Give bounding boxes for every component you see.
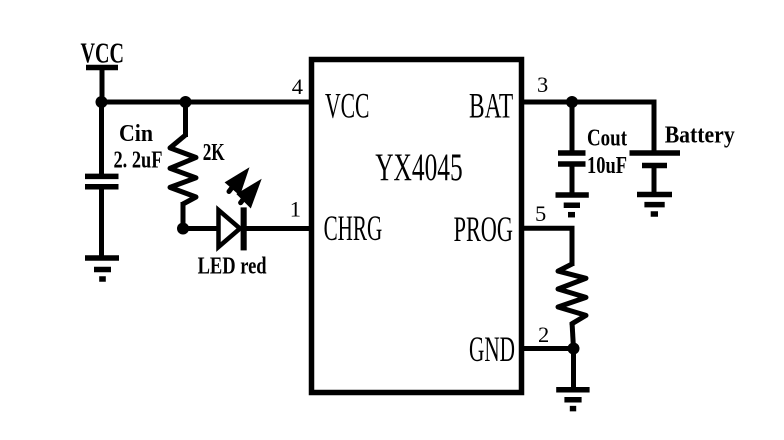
capacitor Cout xyxy=(558,153,586,164)
wire node A to VCC pin 4 xyxy=(102,100,314,105)
wire PROG pin 5 to resistor R2 xyxy=(520,228,572,266)
svg-text:VCC: VCC xyxy=(325,86,370,126)
svg-text:10uF: 10uF xyxy=(587,153,627,179)
LED D1 emission arrow 2 xyxy=(236,179,261,209)
IC U1 YX4045 body xyxy=(312,60,522,393)
ground (below Cout) xyxy=(556,195,589,215)
resistor R2 zigzag xyxy=(558,264,586,324)
svg-text:BAT: BAT xyxy=(469,86,513,126)
battery BT1 plates xyxy=(630,153,681,166)
pin name BAT xyxy=(469,86,513,126)
svg-text:4: 4 xyxy=(292,74,303,99)
wire resistor R2 to node E xyxy=(572,322,574,349)
label Cin xyxy=(119,121,153,147)
pin name GND xyxy=(469,329,515,369)
pin number 5 xyxy=(535,201,546,226)
wire BAT pin 3 to node D xyxy=(520,100,654,105)
svg-text:Battery: Battery xyxy=(665,122,735,148)
pin number 4 xyxy=(292,74,303,99)
resistor R1 2K zigzag xyxy=(170,135,196,204)
wire resistor R1 to node C xyxy=(181,202,186,229)
pin number 3 xyxy=(537,72,548,97)
svg-text:2. 2uF: 2. 2uF xyxy=(114,148,163,174)
ground (below node E) xyxy=(556,390,589,409)
svg-text:2: 2 xyxy=(538,322,549,347)
label Cout xyxy=(587,126,627,152)
node E junction dot xyxy=(568,343,580,355)
value 2K xyxy=(203,140,225,166)
capacitor Cin xyxy=(85,176,119,186)
power symbol VCC xyxy=(81,39,125,70)
wire battery BT1 to ground xyxy=(652,167,657,192)
value 10uF xyxy=(587,153,627,179)
wire node D down to capacitor Cout xyxy=(570,102,575,151)
pin name VCC xyxy=(325,86,370,126)
value 2.2uF xyxy=(114,148,163,174)
wire node A to capacitor Cin xyxy=(99,100,104,174)
wire node B to resistor R1 xyxy=(183,100,188,137)
svg-text:CHRG: CHRG xyxy=(324,208,383,248)
pin name PROG xyxy=(454,209,513,249)
wire LED D1 cathode to CHRG pin 1 xyxy=(245,226,313,231)
wire VCC power to node A xyxy=(100,68,105,103)
wire Cout to ground xyxy=(570,166,575,193)
ground (below Cin) xyxy=(85,258,119,279)
svg-text:1: 1 xyxy=(290,197,301,222)
pin number 1 xyxy=(290,197,301,222)
LED D1 emission arrow 1 xyxy=(225,167,250,196)
label LED red xyxy=(198,254,267,280)
IC part number YX4045 xyxy=(375,146,463,189)
LED D1 triangle xyxy=(219,210,241,247)
svg-text:Cout: Cout xyxy=(587,126,627,152)
pin name CHRG xyxy=(324,208,383,248)
ground (below battery) xyxy=(637,195,672,215)
svg-text:3: 3 xyxy=(537,72,548,97)
svg-text:5: 5 xyxy=(535,201,546,226)
svg-text:GND: GND xyxy=(469,329,515,369)
node B junction dot (resistor tap) xyxy=(180,96,192,108)
wire Cin to ground xyxy=(99,189,104,256)
node A junction dot xyxy=(96,96,108,108)
svg-text:PROG: PROG xyxy=(454,209,513,249)
label Battery xyxy=(665,122,735,148)
svg-text:LED red: LED red xyxy=(198,254,267,280)
wire GND pin 2 to node E xyxy=(520,346,574,351)
LED D1 cathode bar xyxy=(241,207,247,250)
svg-text:YX4045: YX4045 xyxy=(375,146,463,189)
node D junction dot xyxy=(566,96,578,108)
svg-text:Cin: Cin xyxy=(119,121,153,147)
node C junction dot (LED anode) xyxy=(177,223,189,235)
wire node C to LED D1 anode xyxy=(183,226,219,231)
pin number 2 xyxy=(538,322,549,347)
svg-text:2K: 2K xyxy=(203,140,225,166)
wire node D to battery BT1 xyxy=(572,102,654,151)
wire node E to ground xyxy=(571,349,576,388)
